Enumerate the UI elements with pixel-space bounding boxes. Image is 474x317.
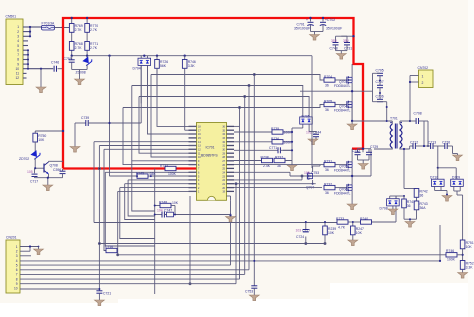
- svg-text:7: 7: [16, 273, 18, 277]
- svg-text:ZD008: ZD008: [76, 71, 86, 75]
- resistor R738: [261, 156, 273, 168]
- svg-text:ZD702: ZD702: [19, 157, 29, 161]
- svg-text:4: 4: [16, 259, 18, 263]
- svg-text:C731: C731: [344, 47, 352, 51]
- svg-text:C705: C705: [376, 69, 384, 73]
- svg-text:100K: 100K: [168, 172, 177, 176]
- svg-text:FDD8447L: FDD8447L: [334, 169, 351, 173]
- wires mosfet drains: [300, 64, 392, 121]
- capacitors C742 C729: [352, 145, 378, 164]
- svg-text:11: 11: [16, 72, 20, 76]
- svg-text:9: 9: [16, 282, 18, 286]
- svg-text:R737: R737: [275, 156, 283, 160]
- svg-text:105: 105: [304, 171, 310, 175]
- svg-text:10K: 10K: [38, 138, 45, 142]
- svg-text:10K: 10K: [172, 201, 179, 205]
- IC701 pin numbers: [198, 126, 201, 194]
- resistor R737: [274, 156, 285, 168]
- resistor R750: [33, 130, 64, 152]
- dual diode D705: [298, 115, 313, 132]
- ground (connector): [36, 69, 46, 93]
- ground (Q708): [35, 177, 63, 191]
- svg-text:CN501: CN501: [6, 15, 17, 19]
- pin numbers CN201: [14, 245, 18, 291]
- resistor R736: [271, 137, 292, 145]
- svg-text:T701: T701: [390, 117, 398, 121]
- ground (C759/ZD701): [72, 70, 87, 85]
- resistor R770: [85, 24, 98, 33]
- ground (CN201): [34, 247, 44, 255]
- svg-text:C753: C753: [245, 290, 253, 294]
- svg-text:R748: R748: [159, 201, 167, 205]
- svg-text:D708: D708: [380, 207, 388, 211]
- resistors R742 R743: [403, 148, 428, 219]
- svg-text:C713: C713: [428, 141, 436, 145]
- resistor R247: [348, 221, 364, 246]
- resistor R769: [69, 24, 82, 33]
- capacitor C759: [64, 56, 75, 70]
- svg-text:F701/3A: F701/3A: [42, 21, 56, 25]
- svg-text:C724: C724: [296, 235, 304, 239]
- capacitor C701: [294, 17, 314, 32]
- capacitor C721 bottom: [94, 289, 111, 306]
- connector pin stubs: [23, 27, 53, 78]
- capacitor C744: [306, 131, 321, 145]
- capacitor C771: [269, 146, 292, 153]
- resistor R771: [85, 42, 98, 51]
- svg-text:R705: R705: [324, 100, 332, 104]
- svg-text:56K: 56K: [160, 64, 167, 68]
- capacitor C753 bottom: [245, 286, 259, 301]
- svg-text:CN702: CN702: [418, 66, 429, 70]
- transistor Q707: [304, 165, 320, 190]
- wire bus down: [110, 56, 197, 176]
- top horizontal runs over IC to right-side verticals: [151, 75, 322, 81]
- resistor R746b: [439, 225, 463, 262]
- connector CN702: [409, 66, 433, 122]
- svg-text:36: 36: [325, 168, 329, 172]
- wires lower-right of IC: [234, 165, 322, 284]
- white right edge strip: [468, 0, 474, 317]
- dual diode D704: [133, 56, 151, 104]
- svg-text:R735: R735: [271, 127, 279, 131]
- svg-text:IC701: IC701: [206, 146, 215, 150]
- svg-text:35V100UF: 35V100UF: [294, 27, 310, 31]
- svg-text:3.3K: 3.3K: [188, 64, 196, 68]
- svg-text:R736: R736: [271, 137, 279, 141]
- capacitor C739: [75, 116, 141, 126]
- CN201 pin wires: [20, 223, 440, 289]
- junction dots connector: [27, 26, 42, 70]
- wires resistor columns: [72, 18, 312, 56]
- white bottom band: [0, 303, 474, 317]
- fuse F701/3A: [42, 21, 72, 30]
- ground (C748/C731): [336, 54, 346, 60]
- white patch bottom center: [118, 299, 348, 317]
- svg-text:FDD8447L: FDD8447L: [334, 192, 351, 196]
- svg-text:3: 3: [16, 254, 18, 258]
- transistor Q705: [334, 161, 352, 173]
- red net wire: [63, 18, 363, 169]
- resistor R731: [324, 160, 335, 173]
- capacitor C746: [51, 61, 63, 72]
- svg-text:10K: 10K: [466, 245, 473, 249]
- svg-text:R731: R731: [324, 160, 332, 164]
- svg-text:2: 2: [16, 250, 18, 254]
- capacitors C705 C707 C706: [373, 69, 388, 123]
- svg-text:2: 2: [422, 81, 424, 85]
- wires IC right to cluster: [234, 126, 298, 160]
- svg-text:C746: C746: [51, 61, 59, 65]
- svg-text:36: 36: [325, 84, 329, 88]
- svg-text:103: 103: [296, 229, 302, 233]
- svg-text:C747: C747: [164, 209, 172, 213]
- svg-text:C712: C712: [410, 141, 418, 145]
- dual diode D710: [430, 146, 456, 201]
- wire nest: [94, 65, 446, 294]
- svg-text:4: 4: [17, 39, 19, 43]
- svg-text:4.7K: 4.7K: [338, 225, 346, 229]
- dual diode D708: [380, 195, 406, 215]
- wires bottom cluster: [94, 196, 396, 245]
- svg-text:100K: 100K: [284, 140, 293, 144]
- svg-text:C708: C708: [414, 112, 422, 116]
- svg-text:D704: D704: [133, 67, 141, 71]
- connector CN501: [6, 15, 24, 85]
- capacitor C747 below IC: [154, 209, 231, 218]
- resistor R746: [182, 56, 196, 131]
- capacitor C708: [410, 112, 429, 148]
- wires lower mosfets: [290, 149, 371, 203]
- svg-text:3.3K: 3.3K: [466, 266, 474, 270]
- svg-text:C739: C739: [81, 116, 89, 120]
- resistor R704: [324, 75, 335, 88]
- white patch bottom right: [330, 283, 474, 317]
- resistor R768: [69, 42, 82, 51]
- svg-text:2.7K: 2.7K: [75, 46, 83, 50]
- capacitors C748 C731: [330, 35, 355, 54]
- resistor R735: [271, 127, 292, 135]
- svg-text:1: 1: [16, 245, 18, 249]
- zener diode ZD701: [76, 56, 93, 75]
- svg-text:2: 2: [17, 30, 19, 34]
- svg-text:10K: 10K: [356, 231, 363, 235]
- ground (cap row): [453, 155, 463, 161]
- resistor R733: [336, 217, 348, 229]
- capacitor C702: [320, 17, 342, 32]
- series resistor R745: [136, 171, 156, 178]
- capacitor C717: [27, 168, 38, 183]
- svg-text:+C702: +C702: [325, 18, 335, 22]
- transistor Q708: [34, 161, 63, 177]
- svg-text:36: 36: [325, 108, 329, 112]
- svg-text:5: 5: [17, 44, 19, 48]
- zener diode ZD702: [19, 149, 41, 168]
- svg-text:D709: D709: [452, 176, 460, 180]
- svg-text:C726: C726: [442, 141, 450, 145]
- svg-text:R744: R744: [160, 164, 168, 168]
- verticals from top runs into IC upper pins: [123, 108, 197, 165]
- capacitor C396: [60, 169, 66, 178]
- svg-text:C742: C742: [352, 149, 360, 153]
- svg-text:C748: C748: [330, 47, 338, 51]
- svg-text:+: +: [306, 18, 308, 22]
- svg-text:5: 5: [16, 263, 18, 267]
- resistor R239: [323, 221, 337, 235]
- ground (R737): [285, 161, 297, 171]
- resistor R752: [458, 261, 474, 279]
- IC701 pin stubs left: [189, 126, 197, 191]
- svg-text:8: 8: [17, 58, 19, 62]
- svg-text:D705: D705: [302, 115, 310, 119]
- ground (IC701): [226, 196, 236, 222]
- svg-text:FDD8447L: FDD8447L: [334, 109, 351, 113]
- svg-text:1: 1: [422, 75, 424, 79]
- svg-text:R733: R733: [336, 217, 344, 221]
- resistor R751: [460, 240, 474, 261]
- svg-text:FDD8447L: FDD8447L: [334, 84, 351, 88]
- resistor R240: [360, 217, 372, 224]
- svg-text:C771: C771: [269, 146, 277, 150]
- svg-text:R745: R745: [136, 171, 144, 175]
- svg-text:10: 10: [15, 67, 19, 71]
- far-left feed lines into IC pins: [94, 141, 197, 143]
- connector CN201: [6, 236, 20, 294]
- transistor Q706: [334, 184, 352, 196]
- svg-text:9: 9: [17, 62, 19, 66]
- svg-text:R732: R732: [324, 183, 332, 187]
- svg-text:104: 104: [157, 209, 163, 213]
- transformer T701: [374, 117, 410, 150]
- resistor R705: [324, 100, 335, 113]
- svg-text:6: 6: [17, 48, 19, 52]
- ground (C701/C702): [310, 32, 324, 41]
- svg-text:C759: C759: [64, 57, 72, 61]
- svg-text:35V: 35V: [343, 39, 350, 43]
- junction dots top: [71, 17, 186, 57]
- svg-text:3: 3: [17, 35, 19, 39]
- main bus down x=312: [311, 56, 314, 168]
- ground (Q704 source): [347, 120, 357, 130]
- resistor R732: [324, 183, 335, 196]
- svg-text:6: 6: [16, 268, 18, 272]
- dual diode D709: [451, 168, 464, 240]
- svg-text:8: 8: [16, 277, 18, 281]
- svg-text:R746: R746: [446, 249, 454, 253]
- svg-text:36: 36: [407, 204, 411, 208]
- svg-text:2.7K: 2.7K: [90, 28, 98, 32]
- svg-text:C721: C721: [103, 292, 111, 296]
- main top bus: [72, 55, 312, 57]
- svg-text:36A: 36A: [420, 206, 427, 210]
- op-amp IC701 body: [197, 123, 227, 201]
- series resistor R744 on red net: [160, 164, 177, 176]
- transistor Q703: [334, 76, 352, 88]
- svg-text:35V100UF: 35V100UF: [326, 27, 342, 31]
- svg-text:100K: 100K: [447, 257, 456, 261]
- ground (C742/C729): [358, 164, 368, 170]
- svg-text:100K: 100K: [284, 131, 293, 135]
- secondary cap row C712 C713 C726: [410, 141, 453, 154]
- svg-text:C753: C753: [311, 171, 319, 175]
- ground (C739): [70, 123, 80, 152]
- svg-text:C717: C717: [30, 180, 38, 184]
- D704 and R726 downleads into IC pins: [140, 65, 142, 123]
- ground (Q706): [347, 175, 357, 210]
- svg-text:12: 12: [15, 76, 19, 80]
- capacitor C227: [296, 221, 311, 239]
- svg-text:10K: 10K: [328, 231, 335, 235]
- svg-text:10: 10: [14, 287, 18, 291]
- svg-text:36: 36: [325, 191, 329, 195]
- svg-text:R738: R738: [261, 156, 269, 160]
- svg-text:D710: D710: [430, 176, 438, 180]
- svg-text:Q708: Q708: [50, 164, 58, 168]
- IC701 pin stubs right: [227, 126, 235, 191]
- svg-text:35V: 35V: [331, 39, 338, 43]
- capacitor C716 bottom of nest: [105, 245, 117, 253]
- svg-text:36: 36: [420, 194, 424, 198]
- svg-text:1: 1: [17, 25, 19, 29]
- svg-text:CN201: CN201: [6, 236, 17, 240]
- svg-text:7: 7: [17, 53, 19, 57]
- transistor Q704: [334, 101, 352, 113]
- svg-text:BD9897FS: BD9897FS: [201, 154, 218, 158]
- svg-text:R240: R240: [360, 217, 368, 221]
- svg-text:2.7K: 2.7K: [90, 46, 98, 50]
- svg-text:105: 105: [27, 170, 33, 174]
- svg-text:R704: R704: [324, 75, 332, 79]
- resistor R748 below IC: [154, 201, 179, 215]
- svg-text:2.7K: 2.7K: [75, 28, 83, 32]
- pin numbers CN501: [15, 25, 19, 80]
- svg-text:C729: C729: [370, 145, 378, 149]
- resistor R726: [155, 56, 169, 95]
- resistor R741: [402, 196, 417, 227]
